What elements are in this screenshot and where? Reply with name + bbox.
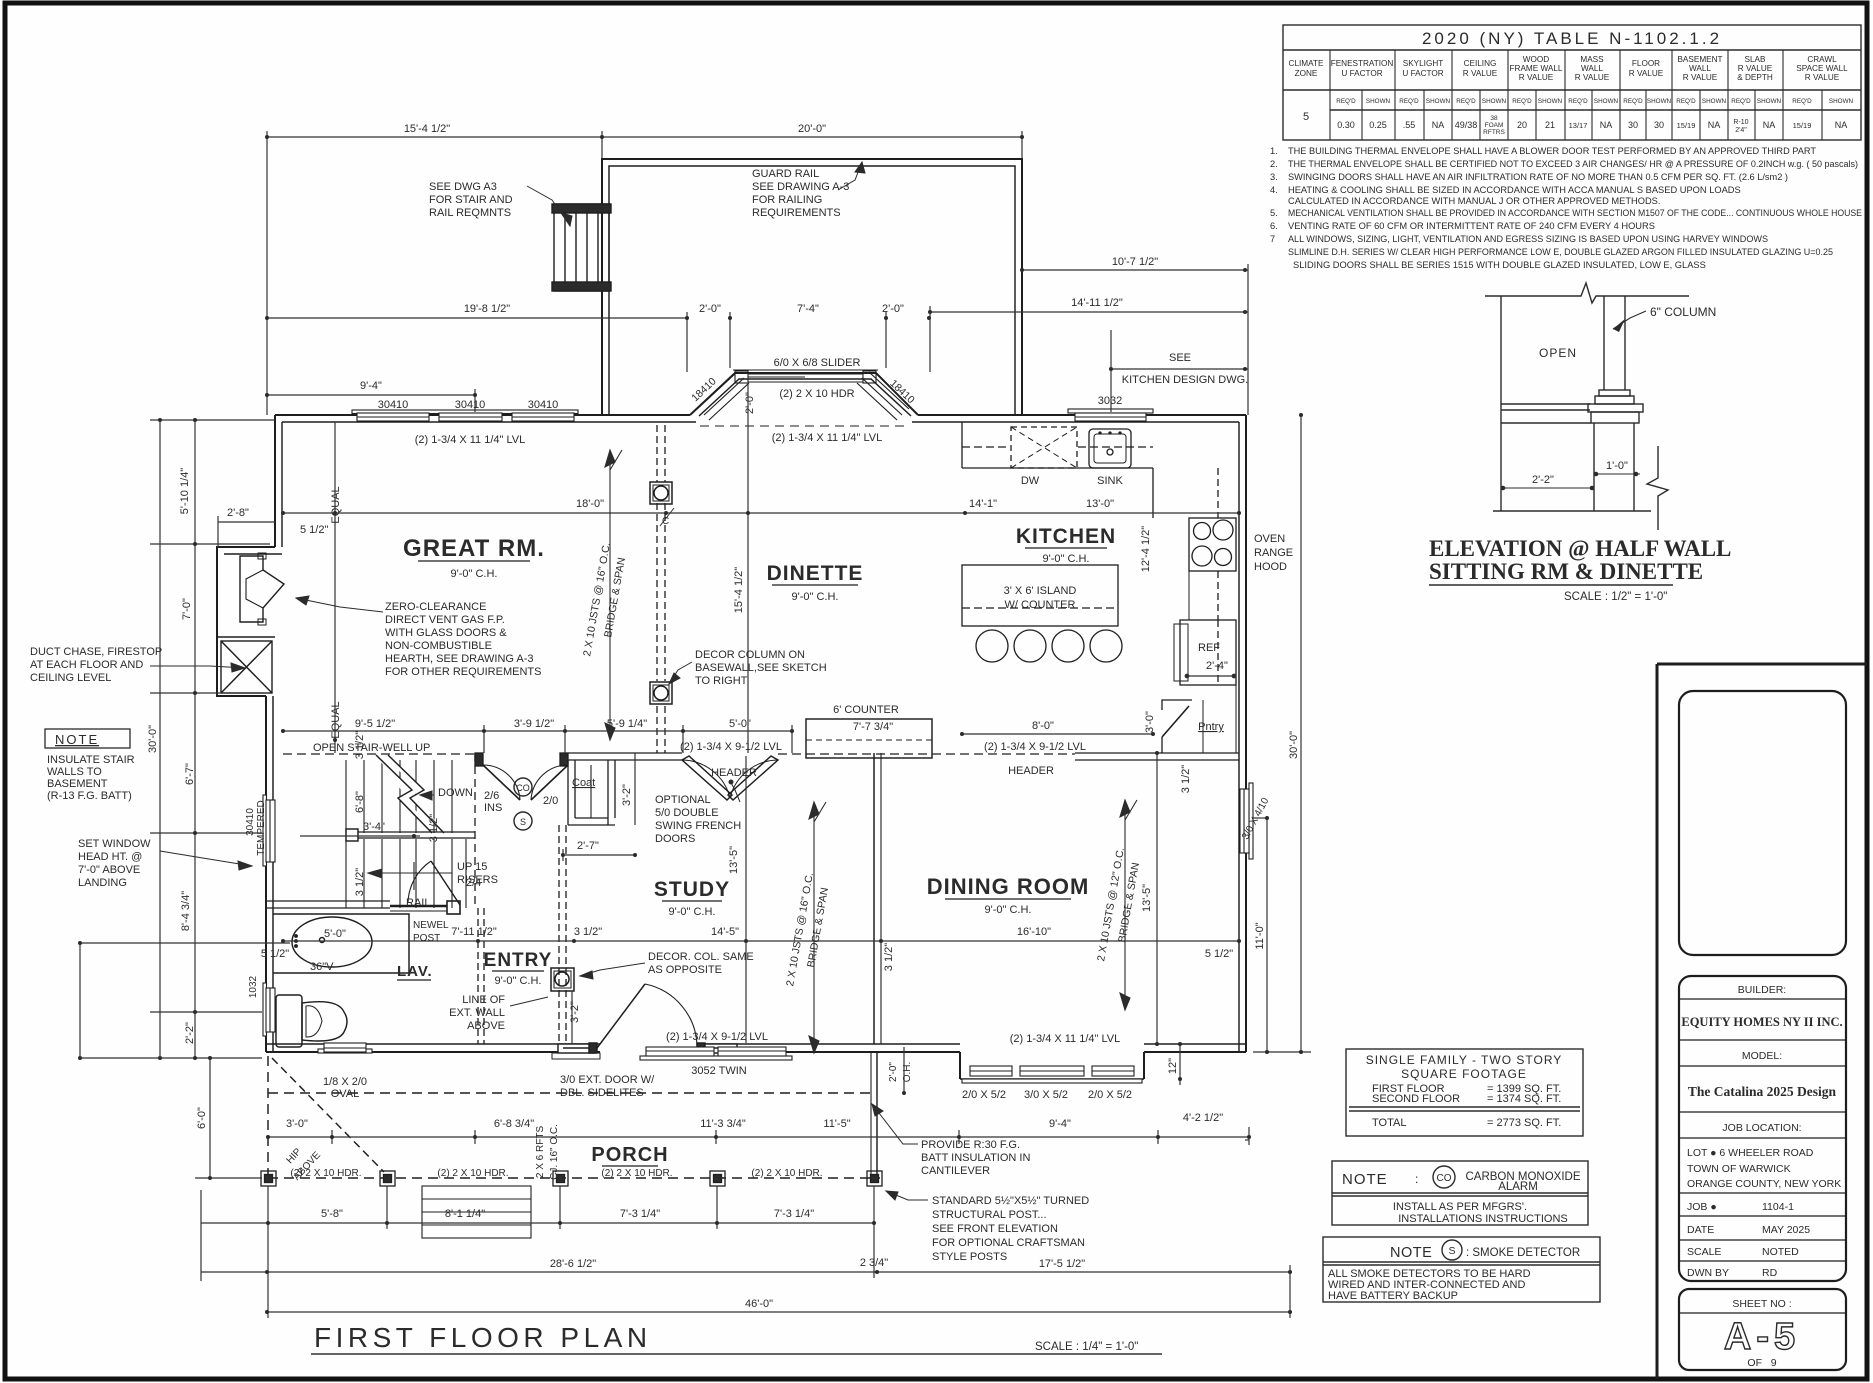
svg-text:2/0 X 5/2: 2/0 X 5/2: [1088, 1089, 1132, 1101]
svg-text:(2) 2 X 10 HDR.: (2) 2 X 10 HDR.: [437, 1168, 508, 1179]
svg-text:14'-1": 14'-1": [969, 498, 997, 510]
svg-text:SHEET NO :: SHEET NO :: [1732, 1298, 1791, 1310]
svg-text:SLIDING DOORS SHALL BE SERIES: SLIDING DOORS SHALL BE SERIES 1515 WITH …: [1293, 260, 1706, 270]
svg-text:SECOND FLOOR: SECOND FLOOR: [1372, 1093, 1460, 1105]
svg-text:5'-8": 5'-8": [321, 1208, 343, 1220]
svg-text:REF: REF: [1198, 642, 1220, 654]
svg-text:WALLS TO: WALLS TO: [47, 766, 102, 778]
svg-text:6'-0": 6'-0": [196, 1107, 208, 1129]
svg-text:Coat: Coat: [572, 777, 595, 789]
svg-text:15/19: 15/19: [1677, 121, 1696, 130]
svg-text:EQUAL: EQUAL: [330, 701, 342, 738]
svg-text:U FACTOR: U FACTOR: [1402, 69, 1443, 78]
svg-text:FENESTRATION: FENESTRATION: [1331, 59, 1394, 68]
svg-text:TEMPERED: TEMPERED: [256, 800, 267, 856]
svg-text:30'-0": 30'-0": [147, 725, 159, 753]
svg-text:Pntry: Pntry: [1198, 721, 1224, 733]
svg-text:REQ'D: REQ'D: [1336, 98, 1356, 105]
svg-text:11'-3 3/4": 11'-3 3/4": [700, 1118, 746, 1130]
svg-text:FOR STAIR AND: FOR STAIR AND: [429, 194, 513, 206]
svg-text:REQ'D: REQ'D: [1792, 98, 1812, 105]
svg-text:FOR OTHER REQUIREMENTS: FOR OTHER REQUIREMENTS: [385, 666, 541, 678]
svg-text:30410: 30410: [455, 399, 486, 411]
svg-text:(2) 2 X 10 HDR.: (2) 2 X 10 HDR.: [290, 1168, 361, 1179]
svg-text:19'-8 1/2": 19'-8 1/2": [464, 303, 510, 315]
svg-text:6" COLUMN: 6" COLUMN: [1650, 305, 1716, 319]
svg-text:GUARD RAIL: GUARD RAIL: [752, 168, 819, 180]
svg-text:30: 30: [1628, 120, 1638, 130]
svg-text:20: 20: [1517, 120, 1527, 130]
svg-text:ZERO-CLEARANCE: ZERO-CLEARANCE: [385, 601, 486, 613]
svg-text:6'-8": 6'-8": [354, 791, 366, 813]
svg-text:POST: POST: [413, 933, 440, 944]
svg-text:(2) 2 X 10 HDR: (2) 2 X 10 HDR: [779, 388, 854, 400]
svg-text:3'-4": 3'-4": [363, 821, 385, 833]
svg-text:RD: RD: [1762, 1267, 1778, 1279]
svg-text:2'-0": 2'-0": [882, 303, 904, 315]
svg-text:46'-0": 46'-0": [745, 1298, 773, 1310]
svg-text:STUDY: STUDY: [654, 878, 730, 901]
svg-text:ORANGE COUNTY, NEW YORK: ORANGE COUNTY, NEW YORK: [1687, 1178, 1841, 1190]
svg-text:CANTILEVER: CANTILEVER: [921, 1165, 990, 1177]
svg-text:UP 15: UP 15: [457, 861, 487, 873]
svg-text:9'-4": 9'-4": [360, 380, 382, 392]
svg-text:3 1/2": 3 1/2": [428, 814, 440, 842]
svg-text:2'-0": 2'-0": [744, 392, 756, 414]
svg-text:RAIL: RAIL: [406, 897, 430, 909]
svg-text:CO: CO: [1437, 1173, 1452, 1184]
svg-text:DIRECT VENT GAS F.P.: DIRECT VENT GAS F.P.: [385, 614, 505, 626]
svg-text:U FACTOR: U FACTOR: [1341, 69, 1382, 78]
svg-text:2'-8": 2'-8": [227, 507, 249, 519]
svg-text:DECOR. COL. SAME: DECOR. COL. SAME: [648, 951, 754, 963]
svg-text:1/8 X 2/0: 1/8 X 2/0: [323, 1076, 367, 1088]
svg-text:JOB LOCATION:: JOB LOCATION:: [1722, 1122, 1801, 1134]
svg-text:W/ COUNTER: W/ COUNTER: [1005, 599, 1076, 611]
svg-text:6'-8 3/4": 6'-8 3/4": [494, 1118, 534, 1130]
svg-text:: SMOKE DETECTOR: : SMOKE DETECTOR: [1466, 1247, 1580, 1259]
svg-text:36"V: 36"V: [310, 961, 334, 973]
svg-text:7'-3 1/4": 7'-3 1/4": [620, 1208, 660, 1220]
svg-text:NON-COMBUSTIBLE: NON-COMBUSTIBLE: [385, 640, 492, 652]
svg-text:WALL: WALL: [1689, 64, 1711, 73]
svg-text:DBL. SIDELITES: DBL. SIDELITES: [560, 1087, 644, 1099]
svg-text:REQ'D: REQ'D: [1512, 98, 1532, 105]
svg-text:8'-4 3/4": 8'-4 3/4": [180, 891, 192, 931]
svg-text:2 3/4": 2 3/4": [860, 1257, 888, 1269]
svg-text:FOAM: FOAM: [1485, 122, 1504, 129]
svg-text:16'-10": 16'-10": [1017, 926, 1051, 938]
svg-text:DOORS: DOORS: [655, 833, 695, 845]
svg-text:CRAWL: CRAWL: [1807, 55, 1837, 64]
svg-text:DWN BY: DWN BY: [1687, 1267, 1729, 1279]
svg-text:The Catalina 2025 Design: The Catalina 2025 Design: [1688, 1084, 1837, 1099]
svg-text:JOB ●: JOB ●: [1687, 1201, 1717, 1213]
svg-text:DOWN: DOWN: [438, 787, 473, 799]
svg-text:7'-3 1/4": 7'-3 1/4": [774, 1208, 814, 1220]
svg-text:11'-0": 11'-0": [1254, 922, 1266, 949]
svg-text:MODEL:: MODEL:: [1742, 1050, 1782, 1062]
svg-text:TOTAL: TOTAL: [1372, 1117, 1406, 1129]
svg-text:28'-6 1/2": 28'-6 1/2": [550, 1258, 596, 1270]
svg-text:14'-11 1/2": 14'-11 1/2": [1071, 297, 1123, 309]
svg-text:13'-5": 13'-5": [728, 846, 740, 874]
svg-text:WALL: WALL: [1581, 64, 1603, 73]
svg-text:(2) 1-3/4 X 11 1/4" LVL: (2) 1-3/4 X 11 1/4" LVL: [1010, 1033, 1121, 1045]
svg-text:AS OPPOSITE: AS OPPOSITE: [648, 964, 722, 976]
svg-text:FOR OPTIONAL CRAFTSMAN: FOR OPTIONAL CRAFTSMAN: [932, 1237, 1085, 1249]
svg-text:17'-5 1/2": 17'-5 1/2": [1039, 1258, 1085, 1270]
svg-text:BASEMENT: BASEMENT: [47, 778, 108, 790]
svg-text:10'-7 1/2": 10'-7 1/2": [1112, 256, 1158, 268]
svg-text:CJ. 16" O.C.: CJ. 16" O.C.: [549, 1124, 560, 1180]
svg-text:(2) 2 X 10 HDR.: (2) 2 X 10 HDR.: [751, 1168, 822, 1179]
svg-text:STANDARD 5½"X5½" TURNED: STANDARD 5½"X5½" TURNED: [932, 1195, 1089, 1207]
svg-text:REQ'D: REQ'D: [1623, 98, 1643, 105]
svg-text:2.: 2.: [1270, 159, 1278, 169]
svg-text:9'-0" C.H.: 9'-0" C.H.: [1043, 553, 1090, 565]
svg-text:STRUCTURAL POST...: STRUCTURAL POST...: [932, 1209, 1047, 1221]
svg-text:SHOWN: SHOWN: [1482, 98, 1507, 105]
svg-text:LANDING: LANDING: [78, 877, 127, 889]
svg-text:REQ'D: REQ'D: [1568, 98, 1588, 105]
svg-text:ZONE: ZONE: [1295, 69, 1318, 78]
svg-text:SINGLE FAMILY - TWO STORY: SINGLE FAMILY - TWO STORY: [1366, 1053, 1563, 1067]
svg-text:20'-0": 20'-0": [798, 123, 826, 135]
svg-text:SLIMLINE D.H. SERIES W/ CLE: SLIMLINE D.H. SERIES W/ CLEAR HIGH PERFO…: [1288, 247, 1833, 257]
svg-text:HAVE BATTERY BACKUP: HAVE BATTERY BACKUP: [1328, 1290, 1458, 1302]
svg-text:7'-7 3/4": 7'-7 3/4": [853, 721, 893, 733]
svg-text:2'-0": 2'-0": [699, 303, 721, 315]
svg-text:EXT. WALL: EXT. WALL: [449, 1007, 505, 1019]
svg-text:(2) 1-3/4 X 9-1/2 LVL: (2) 1-3/4 X 9-1/2 LVL: [680, 741, 782, 753]
svg-text:OVAL: OVAL: [331, 1088, 360, 1100]
svg-text:6.: 6.: [1270, 221, 1278, 231]
svg-text:NA: NA: [1763, 120, 1776, 130]
svg-text:7'-0" ABOVE: 7'-0" ABOVE: [78, 864, 140, 876]
svg-text:WOOD: WOOD: [1523, 55, 1549, 64]
svg-text:8'-0": 8'-0": [1032, 720, 1054, 732]
svg-text:INSTALL AS PER MFGRS'.: INSTALL AS PER MFGRS'.: [1393, 1201, 1527, 1213]
svg-text:2 X 6 RFTS: 2 X 6 RFTS: [535, 1126, 546, 1179]
svg-text:DUCT CHASE, FIRESTOP: DUCT CHASE, FIRESTOP: [30, 646, 162, 658]
svg-text:7'-11 1/2": 7'-11 1/2": [451, 926, 497, 938]
svg-text:30: 30: [1654, 120, 1664, 130]
svg-text:5: 5: [1303, 111, 1309, 123]
svg-text:15'-4 1/2": 15'-4 1/2": [733, 567, 745, 613]
svg-text:DINETTE: DINETTE: [767, 562, 864, 585]
svg-text:SHOWN: SHOWN: [1702, 98, 1727, 105]
svg-text:SET WINDOW: SET WINDOW: [78, 838, 151, 850]
svg-text:OF 9: OF 9: [1747, 1357, 1776, 1369]
svg-text:NOTE: NOTE: [1390, 1245, 1432, 1261]
svg-text:(2) 1-3/4 X 9-1/2 LVL: (2) 1-3/4 X 9-1/2 LVL: [984, 741, 1086, 753]
svg-text:BATT INSULATION IN: BATT INSULATION IN: [921, 1152, 1030, 1164]
svg-text:21: 21: [1545, 120, 1555, 130]
svg-text:HEARTH, SEE DRAWING A-3: HEARTH, SEE DRAWING A-3: [385, 653, 534, 665]
svg-text:OPTIONAL: OPTIONAL: [655, 794, 711, 806]
svg-text:NA: NA: [1432, 120, 1445, 130]
svg-text:OPEN: OPEN: [1539, 346, 1577, 360]
svg-text:= 2773 SQ. FT.: = 2773 SQ. FT.: [1487, 1117, 1561, 1129]
svg-text:(R-13 F.G. BATT): (R-13 F.G. BATT): [47, 790, 132, 802]
svg-text:PORCH: PORCH: [591, 1144, 668, 1166]
svg-text:5'-0": 5'-0": [324, 928, 346, 940]
svg-text:CEILING LEVEL: CEILING LEVEL: [30, 672, 111, 684]
svg-text:.55: .55: [1403, 120, 1416, 130]
svg-text:R VALUE: R VALUE: [1738, 64, 1773, 73]
svg-text:VENTING RATE OF 60 CFM OR INTE: VENTING RATE OF 60 CFM OR INTERMITTENT R…: [1288, 221, 1655, 231]
svg-text:SEE DWG A3: SEE DWG A3: [429, 181, 497, 193]
svg-text:(2) 1-3/4 X 11 1/4" LVL: (2) 1-3/4 X 11 1/4" LVL: [415, 434, 526, 446]
svg-text:THE THERMAL ENVELOPE SHALL BE: THE THERMAL ENVELOPE SHALL BE CERTIFIED …: [1288, 159, 1858, 169]
svg-text:SEE: SEE: [1169, 352, 1191, 364]
svg-text:2'-4": 2'-4": [1206, 660, 1228, 672]
svg-text:12": 12": [1167, 1058, 1179, 1074]
svg-text:2/0 X 5/2: 2/0 X 5/2: [962, 1089, 1006, 1101]
svg-text:6'-7": 6'-7": [184, 763, 196, 785]
svg-text:3'-0": 3'-0": [286, 1118, 308, 1130]
svg-text:= 1374 SQ. FT.: = 1374 SQ. FT.: [1487, 1093, 1561, 1105]
svg-text:2'-0": 2'-0": [888, 1062, 899, 1082]
svg-text:GREAT RM.: GREAT RM.: [403, 535, 545, 562]
svg-text:REQUIREMENTS: REQUIREMENTS: [752, 207, 841, 219]
svg-text:9'-0" C.H.: 9'-0" C.H.: [985, 904, 1032, 916]
svg-text:MECHANICAL VENTILATION SHALL B: MECHANICAL VENTILATION SHALL BE PROVIDED…: [1288, 208, 1862, 218]
svg-text:38: 38: [1490, 115, 1498, 122]
svg-text:INS: INS: [484, 802, 502, 814]
svg-text:BASEMENT: BASEMENT: [1677, 55, 1722, 64]
svg-text:2'-2": 2'-2": [184, 1022, 196, 1044]
svg-text:3'-9 1/2": 3'-9 1/2": [514, 718, 554, 730]
svg-text:3 1/2": 3 1/2": [883, 943, 895, 971]
svg-text:5.: 5.: [1270, 208, 1278, 218]
svg-text:MASS: MASS: [1580, 55, 1604, 64]
svg-text:1.: 1.: [1270, 146, 1278, 156]
svg-text:4'-2 1/2": 4'-2 1/2": [1183, 1112, 1223, 1124]
svg-text:3'-2": 3'-2": [569, 1001, 581, 1023]
svg-text:STYLE POSTS: STYLE POSTS: [932, 1251, 1007, 1263]
svg-text:7'-4": 7'-4": [797, 303, 819, 315]
svg-text:BASEWALL,SEE SKETCH: BASEWALL,SEE SKETCH: [695, 662, 827, 674]
svg-text:2/4: 2/4: [466, 877, 481, 889]
svg-text:2'-2": 2'-2": [1532, 474, 1554, 486]
svg-text:FLOOR: FLOOR: [1632, 59, 1660, 68]
svg-text:SHOWN: SHOWN: [1538, 98, 1563, 105]
svg-text:DECOR COLUMN ON: DECOR COLUMN ON: [695, 649, 805, 661]
svg-text:30410: 30410: [378, 399, 409, 411]
svg-text:49/38: 49/38: [1455, 120, 1478, 130]
svg-text:7'-0": 7'-0": [181, 598, 193, 620]
svg-text:0.25: 0.25: [1369, 120, 1387, 130]
svg-text:SWINGING DOORS SHALL HAVE AN A: SWINGING DOORS SHALL HAVE AN AIR INFILTR…: [1288, 172, 1788, 182]
svg-text:6/0 X 6/8 SLIDER: 6/0 X 6/8 SLIDER: [774, 357, 861, 369]
svg-text:SHOWN: SHOWN: [1829, 98, 1854, 105]
svg-text:SEE FRONT ELEVATION: SEE FRONT ELEVATION: [932, 1223, 1058, 1235]
svg-text:SHOWN: SHOWN: [1647, 98, 1672, 105]
svg-text:3 1/2": 3 1/2": [1180, 765, 1192, 793]
svg-text:SQUARE FOOTAGE: SQUARE FOOTAGE: [1401, 1067, 1527, 1081]
svg-text:13'-5": 13'-5": [1141, 884, 1153, 912]
svg-text:1'-0": 1'-0": [1606, 460, 1628, 472]
svg-text:OVEN: OVEN: [1254, 533, 1285, 545]
svg-text:DINING ROOM: DINING ROOM: [927, 874, 1090, 899]
svg-text:REQ'D: REQ'D: [1456, 98, 1476, 105]
svg-text:18'-0": 18'-0": [576, 498, 604, 510]
svg-text:MAY 2025: MAY 2025: [1762, 1224, 1810, 1236]
svg-text:KITCHEN: KITCHEN: [1016, 525, 1116, 548]
svg-text:2020 (NY) TABLE N-1102.1.2: 2020 (NY) TABLE N-1102.1.2: [1422, 29, 1722, 48]
svg-text:(2) 1-3/4 X 11 1/4" LVL: (2) 1-3/4 X 11 1/4" LVL: [772, 432, 883, 444]
svg-text:HEADER: HEADER: [1008, 765, 1054, 777]
svg-text:3'-0": 3'-0": [1144, 711, 1156, 733]
svg-text:8'-1 1/4": 8'-1 1/4": [445, 1208, 485, 1220]
svg-text:R VALUE: R VALUE: [1629, 69, 1664, 78]
svg-text:2/0: 2/0: [543, 795, 558, 807]
svg-text:REQ'D: REQ'D: [1399, 98, 1419, 105]
svg-text:5 1/2": 5 1/2": [1205, 948, 1233, 960]
svg-text:LINE OF: LINE OF: [462, 994, 505, 1006]
svg-text:3'-2": 3'-2": [621, 784, 633, 806]
svg-text:9'-0" C.H.: 9'-0" C.H.: [495, 975, 542, 987]
svg-text:SINK: SINK: [1097, 475, 1123, 487]
svg-text:SLAB: SLAB: [1745, 55, 1766, 64]
svg-text:15'-4 1/2": 15'-4 1/2": [404, 123, 450, 135]
svg-text:NOTE: NOTE: [1342, 1171, 1388, 1188]
svg-text:PROVIDE R:30 F.G.: PROVIDE R:30 F.G.: [921, 1139, 1020, 1151]
svg-text:3032: 3032: [1098, 395, 1122, 407]
svg-text:3 1/2": 3 1/2": [574, 926, 602, 938]
svg-text:RANGE: RANGE: [1254, 547, 1293, 559]
svg-text:5 1/2": 5 1/2": [300, 524, 328, 536]
svg-text:2/6: 2/6: [484, 790, 499, 802]
svg-text:KITCHEN DESIGN DWG.: KITCHEN DESIGN DWG.: [1122, 374, 1249, 386]
svg-text:TOWN OF WARWICK: TOWN OF WARWICK: [1687, 1163, 1791, 1175]
svg-text:WITH GLASS DOORS &: WITH GLASS DOORS &: [385, 627, 507, 639]
svg-text:5/0 DOUBLE: 5/0 DOUBLE: [655, 807, 719, 819]
svg-text:DATE: DATE: [1687, 1224, 1714, 1236]
svg-text:OPEN STAIR-WELL UP: OPEN STAIR-WELL UP: [313, 742, 430, 754]
svg-text:0.30: 0.30: [1337, 120, 1355, 130]
svg-text:SCALE : 1/4" = 1'-0": SCALE : 1/4" = 1'-0": [1035, 1341, 1138, 1353]
svg-text:HEAD HT. @: HEAD HT. @: [78, 851, 142, 863]
svg-text:9'-4": 9'-4": [1049, 1118, 1071, 1130]
svg-text:4.: 4.: [1270, 185, 1278, 195]
svg-text:SHOWN: SHOWN: [1594, 98, 1619, 105]
svg-text:SPACE WALL: SPACE WALL: [1796, 64, 1848, 73]
svg-text:RFTRS: RFTRS: [1483, 129, 1505, 136]
svg-text:O.H.: O.H.: [902, 1062, 913, 1083]
svg-text:ALL WINDOWS, SIZING, LIGHT, VE: ALL WINDOWS, SIZING, LIGHT, VENTILATION …: [1288, 234, 1768, 244]
svg-text:SCALE: SCALE: [1687, 1246, 1721, 1258]
svg-text:NOTE: NOTE: [55, 732, 99, 747]
svg-text:5 1/2": 5 1/2": [261, 948, 289, 960]
svg-text:2'4": 2'4": [1735, 127, 1747, 134]
svg-text:30'-0": 30'-0": [1288, 731, 1300, 759]
svg-text:SHOWN: SHOWN: [1757, 98, 1782, 105]
svg-text:SWING FRENCH: SWING FRENCH: [655, 820, 741, 832]
svg-text:R VALUE: R VALUE: [1575, 73, 1610, 82]
svg-text:1032: 1032: [248, 975, 259, 998]
svg-text:5'-10 1/4": 5'-10 1/4": [179, 468, 191, 514]
svg-text:LOT ● 6 WHEELER ROAD: LOT ● 6 WHEELER ROAD: [1687, 1147, 1814, 1159]
svg-text:HEADER: HEADER: [711, 767, 757, 779]
svg-text:INSTALLATIONS INSTRUCTIONS: INSTALLATIONS INSTRUCTIONS: [1398, 1213, 1568, 1225]
svg-text:EQUITY HOMES NY II INC.: EQUITY HOMES NY II INC.: [1681, 1015, 1842, 1029]
svg-text:1104-1: 1104-1: [1762, 1201, 1794, 1213]
svg-text:6' COUNTER: 6' COUNTER: [833, 704, 899, 716]
svg-text:(2) 2 X 10 HDR.: (2) 2 X 10 HDR.: [601, 1168, 672, 1179]
svg-text:13/17: 13/17: [1569, 121, 1588, 130]
svg-text:FRAME WALL: FRAME WALL: [1510, 64, 1563, 73]
svg-text:S: S: [520, 817, 526, 827]
svg-text:13'-0": 13'-0": [1086, 498, 1114, 510]
svg-text:DW: DW: [1021, 475, 1040, 487]
svg-text:INSULATE STAIR: INSULATE STAIR: [47, 754, 135, 766]
svg-text:NA: NA: [1600, 120, 1613, 130]
svg-text:(2) 1-3/4 X 9-1/2 LVL: (2) 1-3/4 X 9-1/2 LVL: [666, 1031, 768, 1043]
svg-text:11'-5": 11'-5": [823, 1118, 850, 1130]
svg-text:3/0 EXT. DOOR W/: 3/0 EXT. DOOR W/: [560, 1074, 655, 1086]
svg-text:NA: NA: [1708, 120, 1721, 130]
svg-text:SEE DRAWING A-3: SEE DRAWING A-3: [752, 181, 849, 193]
svg-text:HOOD: HOOD: [1254, 561, 1287, 573]
svg-text:3' X 6' ISLAND: 3' X 6' ISLAND: [1004, 585, 1077, 597]
svg-text:R VALUE: R VALUE: [1463, 69, 1498, 78]
svg-text:THE BUILDING THERMAL ENVELOPE: THE BUILDING THERMAL ENVELOPE SHALL HAVE…: [1288, 146, 1816, 156]
svg-text:3.: 3.: [1270, 172, 1278, 182]
svg-text:9'-0" C.H.: 9'-0" C.H.: [792, 591, 839, 603]
svg-text:ALARM: ALARM: [1498, 1181, 1538, 1193]
svg-text:5'-0": 5'-0": [729, 718, 751, 730]
svg-text:SCALE : 1/2" = 1'-0": SCALE : 1/2" = 1'-0": [1564, 591, 1667, 603]
svg-text:ABOVE: ABOVE: [467, 1020, 505, 1032]
svg-text:9'-5 1/2": 9'-5 1/2": [355, 718, 395, 730]
svg-text:SHOWN: SHOWN: [1426, 98, 1451, 105]
svg-text:HEATING & COOLING SHALL BE SIZ: HEATING & COOLING SHALL BE SIZED IN ACCO…: [1288, 185, 1741, 195]
svg-text:SITTING RM & DINETTE: SITTING RM & DINETTE: [1429, 559, 1703, 584]
svg-text:REQ'D: REQ'D: [1676, 98, 1696, 105]
svg-text:3/0 X 5/2: 3/0 X 5/2: [1024, 1089, 1068, 1101]
svg-text:EQUAL: EQUAL: [330, 486, 342, 523]
svg-text:7: 7: [1270, 234, 1275, 244]
svg-text:9'-0" C.H.: 9'-0" C.H.: [451, 568, 498, 580]
svg-text:FOR RAILING: FOR RAILING: [752, 194, 822, 206]
svg-text:FIRST FLOOR PLAN: FIRST FLOOR PLAN: [314, 1322, 652, 1353]
svg-text:14'-5": 14'-5": [711, 926, 739, 938]
svg-text:S: S: [1448, 1245, 1455, 1257]
svg-text:R VALUE: R VALUE: [1519, 73, 1554, 82]
svg-text:RAIL REQMNTS: RAIL REQMNTS: [429, 207, 511, 219]
svg-text:TO RIGHT: TO RIGHT: [695, 675, 748, 687]
svg-text:& DEPTH: & DEPTH: [1737, 73, 1773, 82]
svg-text:15/19: 15/19: [1793, 121, 1812, 130]
svg-text:2'-7": 2'-7": [577, 840, 599, 852]
svg-text:CO: CO: [516, 783, 530, 793]
svg-text:R VALUE: R VALUE: [1683, 73, 1718, 82]
svg-text:CLIMATE: CLIMATE: [1289, 59, 1324, 68]
svg-text:30410: 30410: [245, 808, 256, 836]
svg-text:REQ'D: REQ'D: [1731, 98, 1751, 105]
svg-text:LAV.: LAV.: [397, 963, 433, 980]
svg-text:12'-4 1/2": 12'-4 1/2": [1140, 526, 1152, 572]
svg-text:SKYLIGHT: SKYLIGHT: [1403, 59, 1444, 68]
svg-text:NA: NA: [1835, 120, 1848, 130]
svg-text:R-10: R-10: [1733, 119, 1748, 126]
svg-text:30410: 30410: [528, 399, 559, 411]
svg-text:ENTRY: ENTRY: [484, 950, 553, 971]
svg-text:9'-0" C.H.: 9'-0" C.H.: [669, 906, 716, 918]
